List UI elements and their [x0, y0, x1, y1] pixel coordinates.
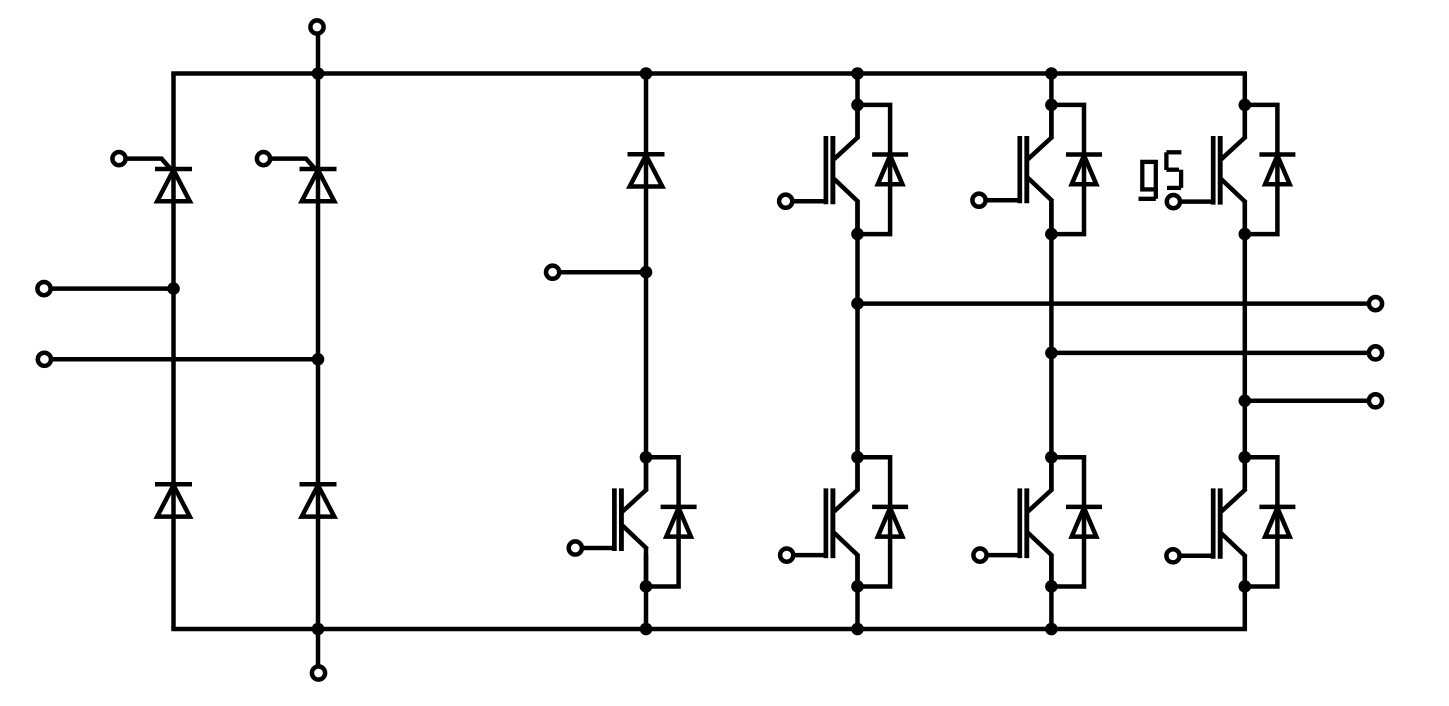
thyristor SCR1: [128, 159, 193, 202]
wire: chopper leg vertical (lower): [644, 555, 649, 629]
junction: [851, 67, 864, 80]
collector node: [851, 99, 864, 112]
wire: inverter leg A vertical (middle): [855, 203, 860, 491]
gate terminal: [569, 541, 582, 554]
thyristor SCR2: [272, 159, 337, 202]
diode DAt: [858, 105, 909, 234]
label g5: [1139, 152, 1182, 199]
diode D3 (chopper): [628, 154, 665, 186]
diode DCt: [1245, 105, 1296, 234]
IGBT QC top: [1181, 105, 1246, 234]
wire: inverter leg C vertical (upper): [1243, 74, 1248, 138]
IGBT QC bottom: [1181, 457, 1246, 586]
terminal AC input 1: [37, 282, 50, 295]
wire: rectifier leg 1 vertical: [171, 74, 176, 630]
gate terminal: [112, 152, 125, 165]
wire: inverter leg A vertical (lower): [855, 555, 860, 629]
phase A node: [851, 297, 864, 310]
terminal phase B: [1369, 346, 1382, 359]
junction: [851, 623, 864, 636]
phase B node: [1045, 347, 1058, 360]
junction: [312, 623, 325, 636]
gate terminal: [779, 195, 792, 208]
diode DAb: [858, 457, 909, 586]
terminal phase A: [1369, 297, 1382, 310]
collector node: [1239, 99, 1252, 112]
emitter node: [1239, 228, 1252, 241]
wire: inverter leg C vertical (middle): [1243, 203, 1248, 491]
junction: [640, 623, 653, 636]
wire: bottom DC bus: [171, 627, 1247, 632]
emitter node: [851, 228, 864, 241]
wire: inverter leg B vertical (upper): [1049, 74, 1054, 138]
gate terminal: [972, 194, 985, 207]
IGBT QA bottom: [795, 457, 859, 586]
emitter node: [1045, 580, 1058, 593]
gate terminal: [1167, 195, 1180, 208]
diode D7: [646, 457, 697, 586]
junction: [312, 67, 325, 80]
wire: inverter leg B vertical (middle): [1049, 203, 1054, 491]
gate terminal: [1166, 549, 1179, 562]
collector node: [1045, 99, 1058, 112]
IGBT QB top: [987, 105, 1053, 234]
emitter node: [1045, 228, 1058, 241]
phase C node: [1239, 395, 1252, 408]
gate terminal: [973, 549, 986, 562]
diode D2: [300, 484, 337, 516]
terminal DC+ (top): [310, 20, 323, 33]
collector node: [1239, 451, 1252, 464]
collector node: [851, 451, 864, 464]
collector node: [640, 451, 653, 464]
wire: top DC bus: [171, 71, 1247, 76]
collector node: [1045, 451, 1058, 464]
junction: [312, 353, 325, 366]
terminal phase C: [1369, 394, 1382, 407]
wire: phase B output: [1051, 351, 1369, 356]
junction: [167, 282, 180, 295]
diode DBb: [1051, 457, 1102, 586]
junction: [640, 67, 653, 80]
junction: [1045, 67, 1058, 80]
IGBT QB bottom: [988, 457, 1053, 586]
terminal DC- (bottom): [312, 666, 325, 679]
emitter node: [1239, 580, 1252, 593]
wire: AC input line 1: [51, 286, 174, 291]
diode DCb: [1245, 457, 1296, 586]
wire: inverter leg C vertical (lower): [1243, 555, 1248, 629]
brake node: [640, 266, 653, 279]
IGBT QA top: [794, 105, 859, 234]
gate terminal: [257, 152, 270, 165]
wire: AC input line 2: [51, 357, 319, 362]
wire: phase A output: [858, 301, 1370, 306]
emitter node: [851, 580, 864, 593]
terminal brake: [546, 266, 559, 279]
wire: inverter leg B vertical (lower): [1049, 555, 1054, 629]
gate terminal: [780, 549, 793, 562]
junction: [1045, 623, 1058, 636]
wire: brake resistor lead: [559, 270, 646, 275]
wire: chopper leg vertical (upper): [644, 74, 649, 491]
wire: phase C output: [1245, 399, 1369, 404]
diode DBt: [1051, 105, 1102, 234]
wire: rectifier leg 2 vertical: [316, 34, 321, 667]
terminal AC input 2: [38, 353, 51, 366]
IGBT Q7 (chopper): [583, 457, 647, 586]
diode D1: [155, 484, 192, 516]
wire: inverter leg A vertical (upper): [855, 74, 860, 138]
emitter node: [640, 580, 653, 593]
